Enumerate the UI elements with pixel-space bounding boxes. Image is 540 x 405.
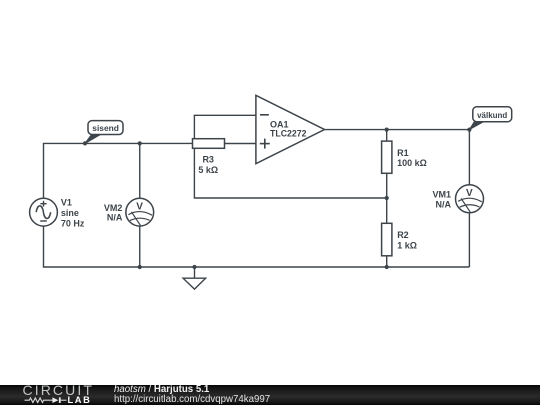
svg-text:R3: R3 [202,155,214,165]
svg-text:V: V [136,201,143,212]
svg-text:70 Hz: 70 Hz [61,219,85,229]
svg-text:V: V [466,188,473,199]
svg-text:VM2: VM2 [104,203,123,213]
svg-text:sine: sine [61,208,79,218]
svg-text:TLC2272: TLC2272 [270,129,307,139]
svg-text:V1: V1 [61,197,72,207]
svg-text:N/A: N/A [107,213,123,223]
svg-text:1 kΩ: 1 kΩ [397,241,417,251]
svg-text:R1: R1 [397,148,409,158]
svg-text:5 kΩ: 5 kΩ [198,165,218,175]
svg-text:R2: R2 [397,230,409,240]
svg-text:N/A: N/A [436,199,452,209]
svg-text:100 kΩ: 100 kΩ [397,158,427,168]
svg-text:sisend: sisend [92,123,119,133]
svg-text:VM1: VM1 [432,190,451,200]
svg-text:välkund: välkund [477,110,507,120]
